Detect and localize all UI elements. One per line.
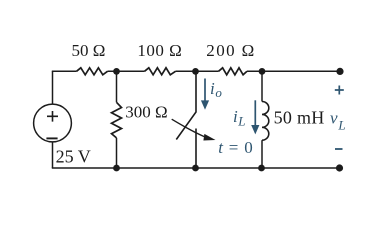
polarity plus sign <box>335 86 344 95</box>
wire between 50ohm and 100ohm <box>108 70 145 72</box>
wire top-left segment <box>52 70 77 72</box>
svg-text:t = 0: t = 0 <box>218 138 253 157</box>
resistor R 300ohm zigzag <box>112 102 122 138</box>
wire bottom rail <box>52 167 340 169</box>
node dot bottom 300ohm <box>113 165 120 172</box>
voltage source plus sign <box>47 111 58 122</box>
svg-text:25 V: 25 V <box>56 147 91 167</box>
wire left rail lower <box>52 142 54 168</box>
svg-text:300 Ω: 300 Ω <box>125 103 167 122</box>
node dot bottom inductor <box>258 165 265 172</box>
wire top-right segment <box>247 70 340 72</box>
switch motion curved arrow <box>172 119 205 136</box>
wire between 100ohm and 200ohm <box>176 70 219 72</box>
polarity minus sign <box>335 148 343 150</box>
svg-text:50 mH: 50 mH <box>274 108 325 128</box>
wire 300ohm column lower stub <box>116 138 118 168</box>
inductor L coil 50 mH <box>262 102 269 141</box>
wire left rail upper <box>52 71 54 104</box>
current arrow i_L <box>254 100 256 125</box>
current arrow i_o <box>204 79 206 102</box>
switch lower stub <box>195 129 197 169</box>
node dot top switch <box>192 68 199 75</box>
svg-text:200 Ω: 200 Ω <box>206 41 255 60</box>
wire 300ohm column upper stub <box>116 71 118 102</box>
terminal dot top right <box>336 68 343 75</box>
node dot bottom switch <box>192 165 199 172</box>
voltage source V1 circle <box>34 104 72 142</box>
inductor L upper stub <box>261 71 263 101</box>
node dot top inductor <box>259 68 266 75</box>
node dot top 300ohm <box>113 68 120 75</box>
resistor R 100ohm zigzag <box>145 68 176 75</box>
svg-text:100 Ω: 100 Ω <box>137 41 182 60</box>
svg-text:50 Ω: 50 Ω <box>72 41 106 60</box>
terminal dot bottom right <box>336 164 343 171</box>
voltage source minus sign <box>46 137 57 139</box>
resistor R 200ohm zigzag <box>219 68 248 75</box>
resistor R 50ohm zigzag <box>77 68 108 75</box>
inductor L lower stub <box>261 140 263 168</box>
switch motion arrowhead <box>203 134 215 141</box>
switch upper stub and blade <box>176 71 196 139</box>
